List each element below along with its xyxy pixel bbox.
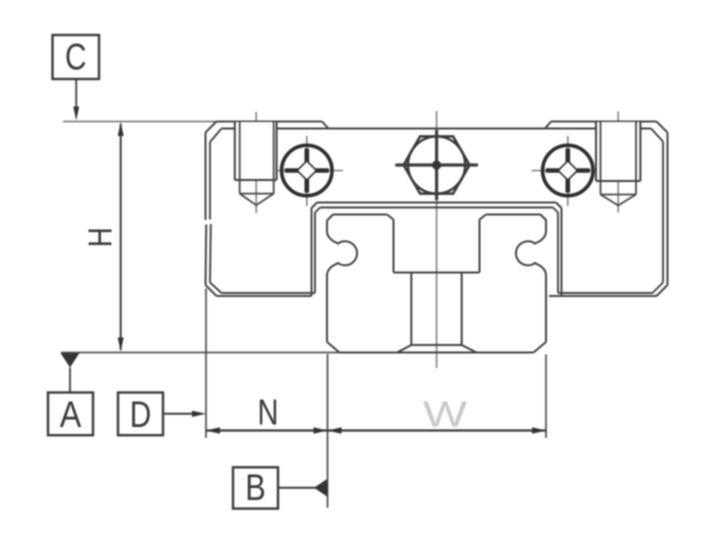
svg-text:N: N <box>258 392 279 433</box>
svg-text:C: C <box>65 37 87 78</box>
svg-text:B: B <box>245 467 266 508</box>
svg-text:H: H <box>82 227 119 247</box>
svg-text:D: D <box>130 394 152 435</box>
svg-text:W: W <box>423 394 468 435</box>
svg-text:A: A <box>60 394 82 435</box>
